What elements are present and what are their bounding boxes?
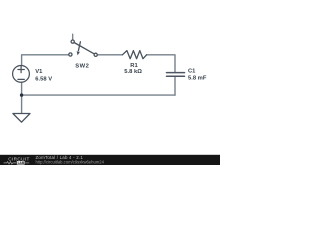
wire resistor to top-right corner and down to capacitor <box>147 55 175 72</box>
wire node to ground <box>21 95 23 113</box>
wire capacitor down to bottom-right corner <box>174 76 176 95</box>
wire switch to resistor <box>97 54 122 56</box>
CircuitLab logo <box>4 157 30 165</box>
svg-text:5.8 mF: 5.8 mF <box>188 76 207 82</box>
svg-text:LAB: LAB <box>18 161 25 165</box>
voltage source V1 <box>13 66 30 83</box>
svg-text:V1: V1 <box>35 69 43 75</box>
svg-text:http://circuitlab.com/c9sxkw6e: http://circuitlab.com/c9sxkw6ehum24 <box>36 159 105 164</box>
svg-text:C1: C1 <box>188 69 196 75</box>
resistor R1 <box>122 51 146 59</box>
wire V1 bottom to node <box>21 82 23 95</box>
switch SW2 <box>69 34 97 56</box>
svg-text:6.58 V: 6.58 V <box>35 77 52 83</box>
footer bar <box>0 155 220 165</box>
node junction <box>20 93 23 96</box>
ground <box>13 114 30 123</box>
wire top-left from V1 up and right to switch <box>22 55 69 66</box>
wire bottom return <box>22 94 175 96</box>
svg-text:SW2: SW2 <box>75 63 89 69</box>
capacitor C1 <box>167 73 185 77</box>
svg-text:5.8 kΩ: 5.8 kΩ <box>124 69 142 75</box>
